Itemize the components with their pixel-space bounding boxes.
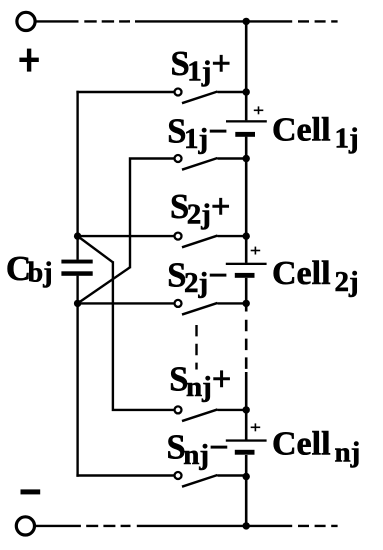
wire Snj- row left bbox=[76, 474, 173, 476]
node S1j+ bus junction bbox=[243, 88, 250, 95]
node top bus junction bbox=[243, 18, 250, 25]
wire diagonal cap-bottom to S1j- column bbox=[78, 267, 130, 303]
node S2j+ bus junction bbox=[243, 232, 250, 239]
wire bus segment Cellnj to bottom bbox=[245, 455, 248, 526]
node cap top junction bbox=[74, 232, 81, 239]
wire bottom rail solid center bbox=[137, 525, 292, 527]
wire left rail vertical upper (cap top node up to S1j+ row) bbox=[76, 91, 78, 260]
wire vertical Snj+ column bbox=[113, 261, 174, 410]
switch S2j+ bbox=[175, 233, 247, 248]
switch S1j+ bbox=[175, 89, 247, 104]
wire bottom rail dashed right bbox=[298, 525, 338, 527]
wire S1j+ row left bbox=[76, 91, 173, 93]
wire bus dashed gap bbox=[245, 320, 248, 369]
wire bus segment top to Cell1j bbox=[245, 21, 248, 120]
wire bus segment to Cellnj bbox=[245, 372, 248, 440]
node Snj+ bus junction bbox=[243, 406, 250, 413]
wire bus segment Cell2j down to dashed gap bbox=[245, 278, 248, 312]
terminal T- (bottom-left open circle) bbox=[16, 517, 34, 535]
wire top rail solid center bbox=[135, 20, 292, 22]
wire top rail solid from terminal bbox=[35, 20, 78, 22]
wire bottom rail dashed left bbox=[86, 525, 130, 527]
node Snj- bus junction bbox=[243, 473, 250, 480]
wire bus segment Cell1j to Cell2j bbox=[245, 137, 248, 263]
wire S2j+ row left bbox=[78, 235, 174, 237]
switch Snj- bbox=[175, 472, 247, 487]
switch S2j- bbox=[175, 300, 247, 315]
switch Snj+ bbox=[175, 406, 247, 421]
node bottom bus junction bbox=[243, 522, 250, 529]
wire bottom rail solid from terminal bbox=[35, 525, 81, 527]
node cap bottom junction bbox=[74, 300, 81, 307]
node S2j- bus junction bbox=[243, 300, 250, 307]
battery Cell1j bbox=[226, 106, 267, 136]
battery Cell2j bbox=[226, 247, 267, 278]
switch S1j- bbox=[175, 155, 247, 170]
minus terminal label bbox=[21, 489, 41, 494]
wire dashed continuation column bbox=[195, 325, 197, 370]
wire S2j- row left bbox=[78, 302, 174, 304]
capacitor Cbj bbox=[61, 260, 92, 276]
wire diagonal cap-top to Snj+ column bbox=[78, 236, 113, 262]
battery Cellnj bbox=[226, 423, 267, 454]
plus terminal label bbox=[19, 49, 38, 72]
node S1j- bus junction bbox=[243, 155, 250, 162]
wire top rail dashed left bbox=[84, 20, 130, 22]
terminal T+ (top-left open circle) bbox=[17, 12, 35, 30]
wire top rail dashed right bbox=[298, 20, 338, 22]
wire vertical S1j- column bbox=[130, 159, 174, 269]
wire left rail vertical lower (cap bottom node down to Snj- row) bbox=[76, 276, 78, 477]
